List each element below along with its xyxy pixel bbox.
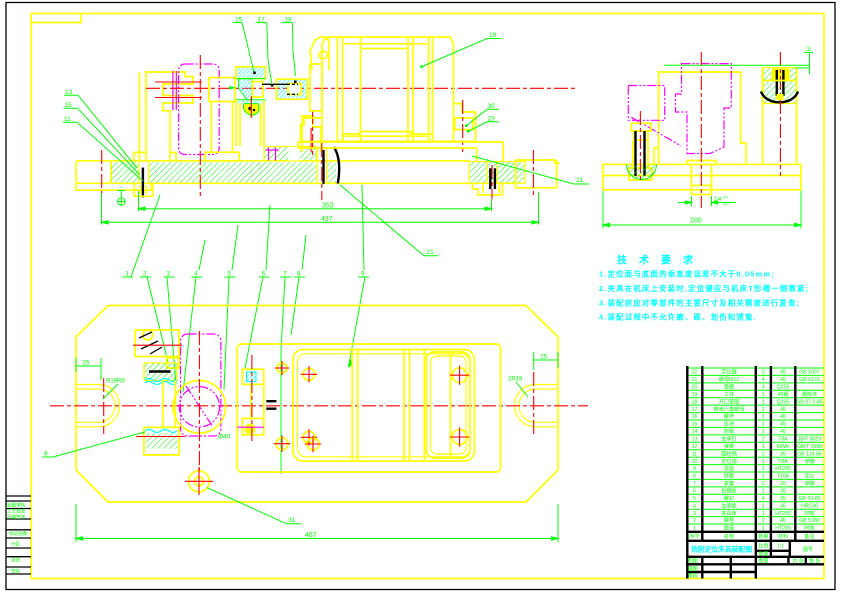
clamp nut [772, 69, 789, 80]
datum target symbol [118, 191, 126, 206]
svg-text:45: 45 [780, 370, 786, 376]
svg-text:时效: 时效 [804, 524, 815, 532]
center bolt shank [322, 150, 324, 184]
foot centerlines [311, 100, 463, 152]
svg-text:25: 25 [82, 360, 90, 367]
svg-text:21: 21 [427, 249, 435, 256]
svg-text:HT200: HT200 [775, 466, 791, 472]
spot face arc [627, 165, 657, 180]
front view vertical centerline [199, 55, 201, 198]
svg-text:4: 4 [693, 503, 696, 509]
svg-text:1.定位面与底面的垂直度误差不大于0.05mm;: 1.定位面与底面的垂直度误差不大于0.05mm; [599, 270, 775, 279]
center bolt hole [317, 148, 327, 184]
svg-text:25: 25 [540, 354, 548, 361]
svg-text:12: 12 [692, 444, 698, 450]
workpiece outline plan [293, 350, 474, 462]
plan center crosshair [198, 331, 200, 470]
svg-text:压块: 压块 [724, 420, 735, 428]
svg-text:GB/T 2089: GB/T 2089 [797, 444, 822, 450]
center support column [205, 78, 239, 161]
svg-text:附板: 附板 [724, 427, 735, 435]
svg-text:日期签字: 日期签字 [7, 513, 26, 520]
spring washer blob [243, 104, 259, 116]
svg-text:GB 119-86: GB 119-86 [797, 451, 822, 457]
right assembly body [237, 344, 500, 472]
bracket pins (magenta) [173, 71, 176, 110]
svg-text:GB 70-85: GB 70-85 [798, 496, 820, 502]
svg-text:1: 1 [762, 474, 765, 480]
svg-text:分区: 分区 [11, 540, 21, 547]
svg-text:弹簧: 弹簧 [724, 442, 734, 450]
svg-text:GB 6170: GB 6170 [799, 377, 820, 383]
BOM table grid [687, 368, 824, 524]
technical requirements text [599, 270, 809, 322]
clamp column [163, 381, 176, 429]
cyan spring top [145, 379, 177, 382]
left bolt boss [134, 183, 152, 196]
svg-text:序号: 序号 [689, 532, 699, 540]
svg-text:16: 16 [692, 414, 698, 420]
svg-text:4: 4 [762, 385, 765, 391]
plan view plate [76, 306, 558, 503]
plan bolt circles [277, 363, 287, 373]
svg-text:1: 1 [762, 459, 765, 465]
svg-text:铣削定位夹具装配图: 铣削定位夹具装配图 [691, 545, 752, 554]
svg-text:14: 14 [692, 429, 698, 435]
svg-text:T10A: T10A [777, 474, 790, 480]
mount bolt hole [189, 471, 210, 492]
svg-text:1: 1 [762, 511, 765, 517]
right screw hole [487, 162, 497, 184]
svg-text:材料: 材料 [778, 532, 788, 540]
svg-text:第 张: 第 张 [809, 558, 820, 565]
cylinder right foot [454, 104, 476, 142]
svg-text:JB/T 8029: JB/T 8029 [798, 437, 822, 443]
svg-text:螺钉: 螺钉 [724, 494, 734, 502]
svg-text:2: 2 [762, 518, 765, 524]
svg-text:2: 2 [762, 451, 765, 457]
svg-text:3: 3 [807, 46, 811, 53]
plan view main centerline [50, 405, 588, 407]
magenta bar [237, 426, 263, 428]
svg-text:1: 1 [762, 414, 765, 420]
workpiece cylinder (19) [322, 37, 454, 141]
svg-text:定位销: 定位销 [721, 457, 737, 465]
svg-text:11: 11 [692, 451, 697, 457]
pedestal bolt gap [289, 147, 300, 161]
title block lines [686, 532, 824, 579]
svg-text:4: 4 [194, 271, 198, 278]
svg-text:21: 21 [692, 377, 698, 383]
svg-text:R18R9: R18R9 [106, 379, 125, 385]
dim 25 right [534, 352, 558, 370]
left U-bracket [134, 72, 193, 161]
svg-text:19: 19 [489, 32, 497, 39]
thread line (black) [262, 83, 287, 85]
svg-text:Q235: Q235 [777, 385, 790, 391]
svg-text:T8A: T8A [778, 437, 788, 443]
side view center axis [700, 52, 702, 208]
svg-text:437: 437 [321, 216, 333, 223]
svg-text:4: 4 [762, 496, 765, 502]
locating pin cap (cyan hatched) [236, 67, 266, 79]
dim 25 left [76, 358, 101, 380]
svg-text:2: 2 [762, 407, 765, 413]
svg-text:HRC40: HRC40 [801, 503, 818, 509]
svg-text:8: 8 [297, 271, 301, 278]
base right hatched block [469, 162, 525, 184]
chuck end cap [310, 37, 329, 71]
svg-text:35: 35 [780, 451, 786, 457]
svg-text:铴套: 铴套 [724, 472, 735, 480]
BOM header text [689, 532, 814, 540]
svg-text:圆柱销: 圆柱销 [721, 449, 737, 457]
key section bars (black) [266, 401, 276, 409]
svg-text:螺母M12: 螺母M12 [719, 375, 740, 383]
svg-text:18: 18 [692, 399, 698, 405]
pin seat strip (cyan) [237, 101, 265, 104]
left bolt hole [139, 162, 149, 183]
pin cap bottom edge [236, 78, 265, 80]
cylinder left hub [310, 64, 322, 111]
svg-text:45: 45 [780, 489, 786, 495]
svg-text:签名: 签名 [11, 567, 20, 574]
upper plate [298, 142, 503, 161]
frame corner box [31, 14, 81, 23]
svg-text:19: 19 [692, 392, 698, 398]
svg-text:14: 14 [714, 196, 722, 203]
svg-text:3.装配前应对零部件的主要尺寸及相关精度进行复查;: 3.装配前应对零部件的主要尺寸及相关精度进行复查; [599, 298, 800, 307]
hidden profile (magenta) [676, 64, 732, 154]
svg-text:45: 45 [780, 429, 786, 435]
svg-text:3: 3 [693, 511, 696, 517]
side view main body [654, 72, 746, 164]
svg-text:图号: 图号 [803, 547, 813, 553]
svg-text:45钢: 45钢 [778, 390, 789, 398]
svg-text:1: 1 [762, 392, 765, 398]
svg-text:垫圈: 垫圈 [724, 383, 734, 391]
clamp washer bowl (black arc) [761, 92, 798, 103]
svg-text:Q235: Q235 [777, 399, 790, 405]
clamp lower block [144, 427, 179, 455]
hidden workpiece column (magenta dashed) [179, 64, 220, 155]
svg-text:锯库件: 锯库件 [802, 390, 818, 398]
svg-text:重量: 重量 [759, 558, 769, 565]
svg-text:更改: 更改 [11, 556, 21, 563]
svg-text:8: 8 [693, 474, 696, 480]
svg-text:带肩六角螺母: 带肩六角螺母 [713, 405, 744, 413]
pin nut (cyan hatched) [276, 79, 307, 99]
svg-text:支座: 支座 [724, 464, 734, 472]
svg-text:技术要求: 技术要求 [617, 254, 705, 267]
svg-text:45: 45 [780, 414, 786, 420]
front view horizontal centerline [146, 87, 576, 89]
binding table [6, 496, 31, 574]
svg-text:描图: 描图 [688, 566, 698, 573]
bolt tip [777, 94, 784, 100]
svg-text:15: 15 [692, 422, 698, 428]
svg-text:45: 45 [780, 518, 786, 524]
svg-text:13: 13 [692, 437, 698, 443]
dimension 200 [603, 191, 801, 229]
svg-text:10: 10 [692, 459, 698, 465]
title block small text [688, 543, 821, 580]
svg-text:H7: H7 [724, 195, 730, 200]
svg-text:8: 8 [44, 451, 48, 458]
dimension 487 [76, 504, 558, 542]
left cap centerline [101, 150, 103, 193]
svg-text:工件: 工件 [724, 390, 734, 398]
svg-text:4: 4 [762, 377, 765, 383]
svg-text:GB 5780: GB 5780 [799, 518, 820, 524]
svg-text:200: 200 [690, 218, 702, 225]
svg-text:名称: 名称 [724, 532, 734, 540]
screw slots (black) [139, 332, 162, 354]
svg-text:22: 22 [692, 370, 698, 376]
dimension 353 [139, 191, 492, 211]
center hole centerline [321, 143, 323, 200]
svg-text:1:1: 1:1 [777, 544, 784, 550]
clamp screw head block [135, 330, 179, 368]
BOM verticals [687, 366, 795, 579]
bracket centerlines (red) [155, 82, 202, 98]
svg-text:钻模板: 钻模板 [721, 487, 737, 495]
nut slot [288, 84, 301, 95]
svg-text:6: 6 [693, 489, 696, 495]
right screw centerline [491, 165, 493, 199]
side bolt [629, 123, 652, 180]
pedestal washer (magenta) [266, 148, 279, 161]
pin bracket legs [236, 100, 264, 146]
right clamp column [763, 68, 797, 164]
svg-text:7: 7 [693, 481, 696, 487]
svg-text:淀火: 淀火 [804, 472, 814, 480]
key block lower [242, 418, 263, 434]
svg-text:螺杆: 螺杆 [724, 412, 734, 420]
right screw boss [473, 183, 503, 195]
svg-text:45: 45 [780, 503, 786, 509]
right block centerline [532, 150, 534, 196]
svg-text:T8A: T8A [778, 459, 788, 465]
svg-text:GB 1097: GB 1097 [799, 370, 820, 376]
svg-text:审核: 审核 [688, 573, 698, 580]
right support bracket [302, 116, 321, 152]
pin body base edge [236, 99, 265, 101]
base hatch left section [111, 162, 139, 182]
svg-text:9: 9 [693, 466, 696, 472]
svg-text:袞套: 袞套 [724, 479, 735, 487]
svg-text:1: 1 [125, 271, 129, 278]
pedestal hatch [264, 147, 317, 161]
svg-text:支承板: 支承板 [721, 501, 737, 509]
svg-text:备注: 备注 [804, 532, 814, 540]
svg-text:35: 35 [780, 496, 786, 502]
svg-text:定位键: 定位键 [721, 368, 737, 376]
right foot key box [455, 118, 473, 130]
plan view left notch [76, 385, 120, 427]
svg-text:螺栓: 螺栓 [724, 516, 735, 524]
svg-text:1: 1 [762, 429, 765, 435]
right screw shank [490, 168, 495, 189]
clamp mid band [763, 80, 797, 82]
locating pin body (cyan hatched) [239, 79, 252, 100]
svg-text:2: 2 [762, 481, 765, 487]
svg-text:20: 20 [692, 385, 698, 391]
svg-text:45: 45 [780, 377, 786, 383]
svg-text:标记处数: 标记处数 [9, 530, 28, 537]
svg-text:3: 3 [167, 271, 171, 278]
svg-text:2: 2 [762, 437, 765, 443]
BOM rows text [692, 368, 823, 532]
svg-text:20: 20 [780, 481, 786, 487]
svg-text:7: 7 [283, 271, 287, 278]
svg-text:数量: 数量 [759, 551, 769, 558]
svg-text:制图: 制图 [688, 558, 698, 565]
svg-text:1: 1 [762, 399, 765, 405]
svg-text:45: 45 [780, 422, 786, 428]
svg-text:2R19: 2R19 [508, 377, 523, 383]
svg-text:比例: 比例 [759, 543, 769, 550]
item numbers 1-9 [125, 271, 365, 278]
svg-text:1: 1 [762, 466, 765, 472]
svg-text:353: 353 [322, 203, 334, 210]
T-key slot [687, 161, 716, 195]
svg-text:65Mn: 65Mn [777, 444, 790, 450]
svg-text:2: 2 [693, 518, 696, 524]
saddle [343, 132, 433, 142]
plan view right notch [514, 385, 558, 427]
svg-text:Ø40: Ø40 [218, 434, 231, 441]
pin sleeve [253, 82, 264, 98]
front view base plate [76, 161, 516, 190]
svg-text:支承钉: 支承钉 [721, 435, 737, 443]
leader end dots [253, 72, 296, 87]
side view base [603, 164, 801, 189]
svg-text:数量: 数量 [758, 532, 768, 540]
svg-text:2.夹具在机床上安装时,定位键应与机床T形槽一侧靠紧;: 2.夹具在机床上安装时,定位键应与机床T形槽一侧靠紧; [599, 284, 809, 293]
svg-text:夹具体: 夹具体 [721, 509, 737, 517]
leader labels 15 17 18 [235, 17, 292, 24]
dimension 14 [678, 196, 736, 206]
svg-text:1: 1 [762, 503, 765, 509]
svg-text:js6: js6 [723, 201, 730, 206]
svg-text:2: 2 [143, 271, 147, 278]
binding table text [7, 502, 28, 575]
svg-text:1: 1 [762, 422, 765, 428]
svg-text:共 张: 共 张 [793, 558, 804, 565]
svg-text:9: 9 [361, 271, 365, 278]
base right end block [516, 160, 560, 188]
left bolt shank [142, 168, 144, 198]
break line arc [334, 147, 339, 184]
leader labels 13 15 11 [64, 89, 73, 123]
svg-text:4.装配过程中不允许磨、碰、划伤和锈蛰.: 4.装配过程中不允许磨、碰、划伤和锈蛰. [599, 313, 757, 322]
svg-text:开口垫圈: 开口垫圈 [719, 397, 740, 405]
svg-text:时效: 时效 [804, 509, 815, 517]
green arrow mark [229, 86, 237, 90]
svg-text:21: 21 [576, 177, 584, 184]
svg-text:1: 1 [762, 444, 765, 450]
clamp upper hatch block [144, 363, 177, 381]
dimension 437 [102, 191, 539, 225]
svg-text:487: 487 [305, 532, 317, 539]
svg-text:渗碳: 渗碳 [804, 457, 815, 465]
svg-text:工艺批准: 工艺批准 [7, 507, 26, 514]
svg-text:GB 97.2-85: GB 97.2-85 [796, 399, 823, 405]
svg-text:31: 31 [288, 517, 296, 524]
svg-text:HT200: HT200 [775, 511, 791, 517]
right clamp hatch block [763, 68, 797, 104]
svg-text:6: 6 [262, 271, 266, 278]
svg-text:渗碳: 渗碳 [804, 479, 815, 487]
svg-text:5: 5 [227, 271, 231, 278]
svg-text:45: 45 [780, 407, 786, 413]
svg-text:5: 5 [693, 496, 696, 502]
hidden prism (magenta) [181, 334, 221, 436]
cylinder left foot [301, 118, 323, 141]
notch centerlines [104, 372, 534, 434]
workpiece inner wall [298, 354, 470, 457]
svg-text:2: 2 [762, 370, 765, 376]
svg-text:底座: 底座 [724, 524, 734, 532]
svg-text:17: 17 [692, 407, 698, 413]
key block upper [242, 369, 263, 384]
key column [251, 384, 264, 418]
svg-text:1: 1 [762, 489, 765, 495]
clamp ring [173, 381, 226, 434]
